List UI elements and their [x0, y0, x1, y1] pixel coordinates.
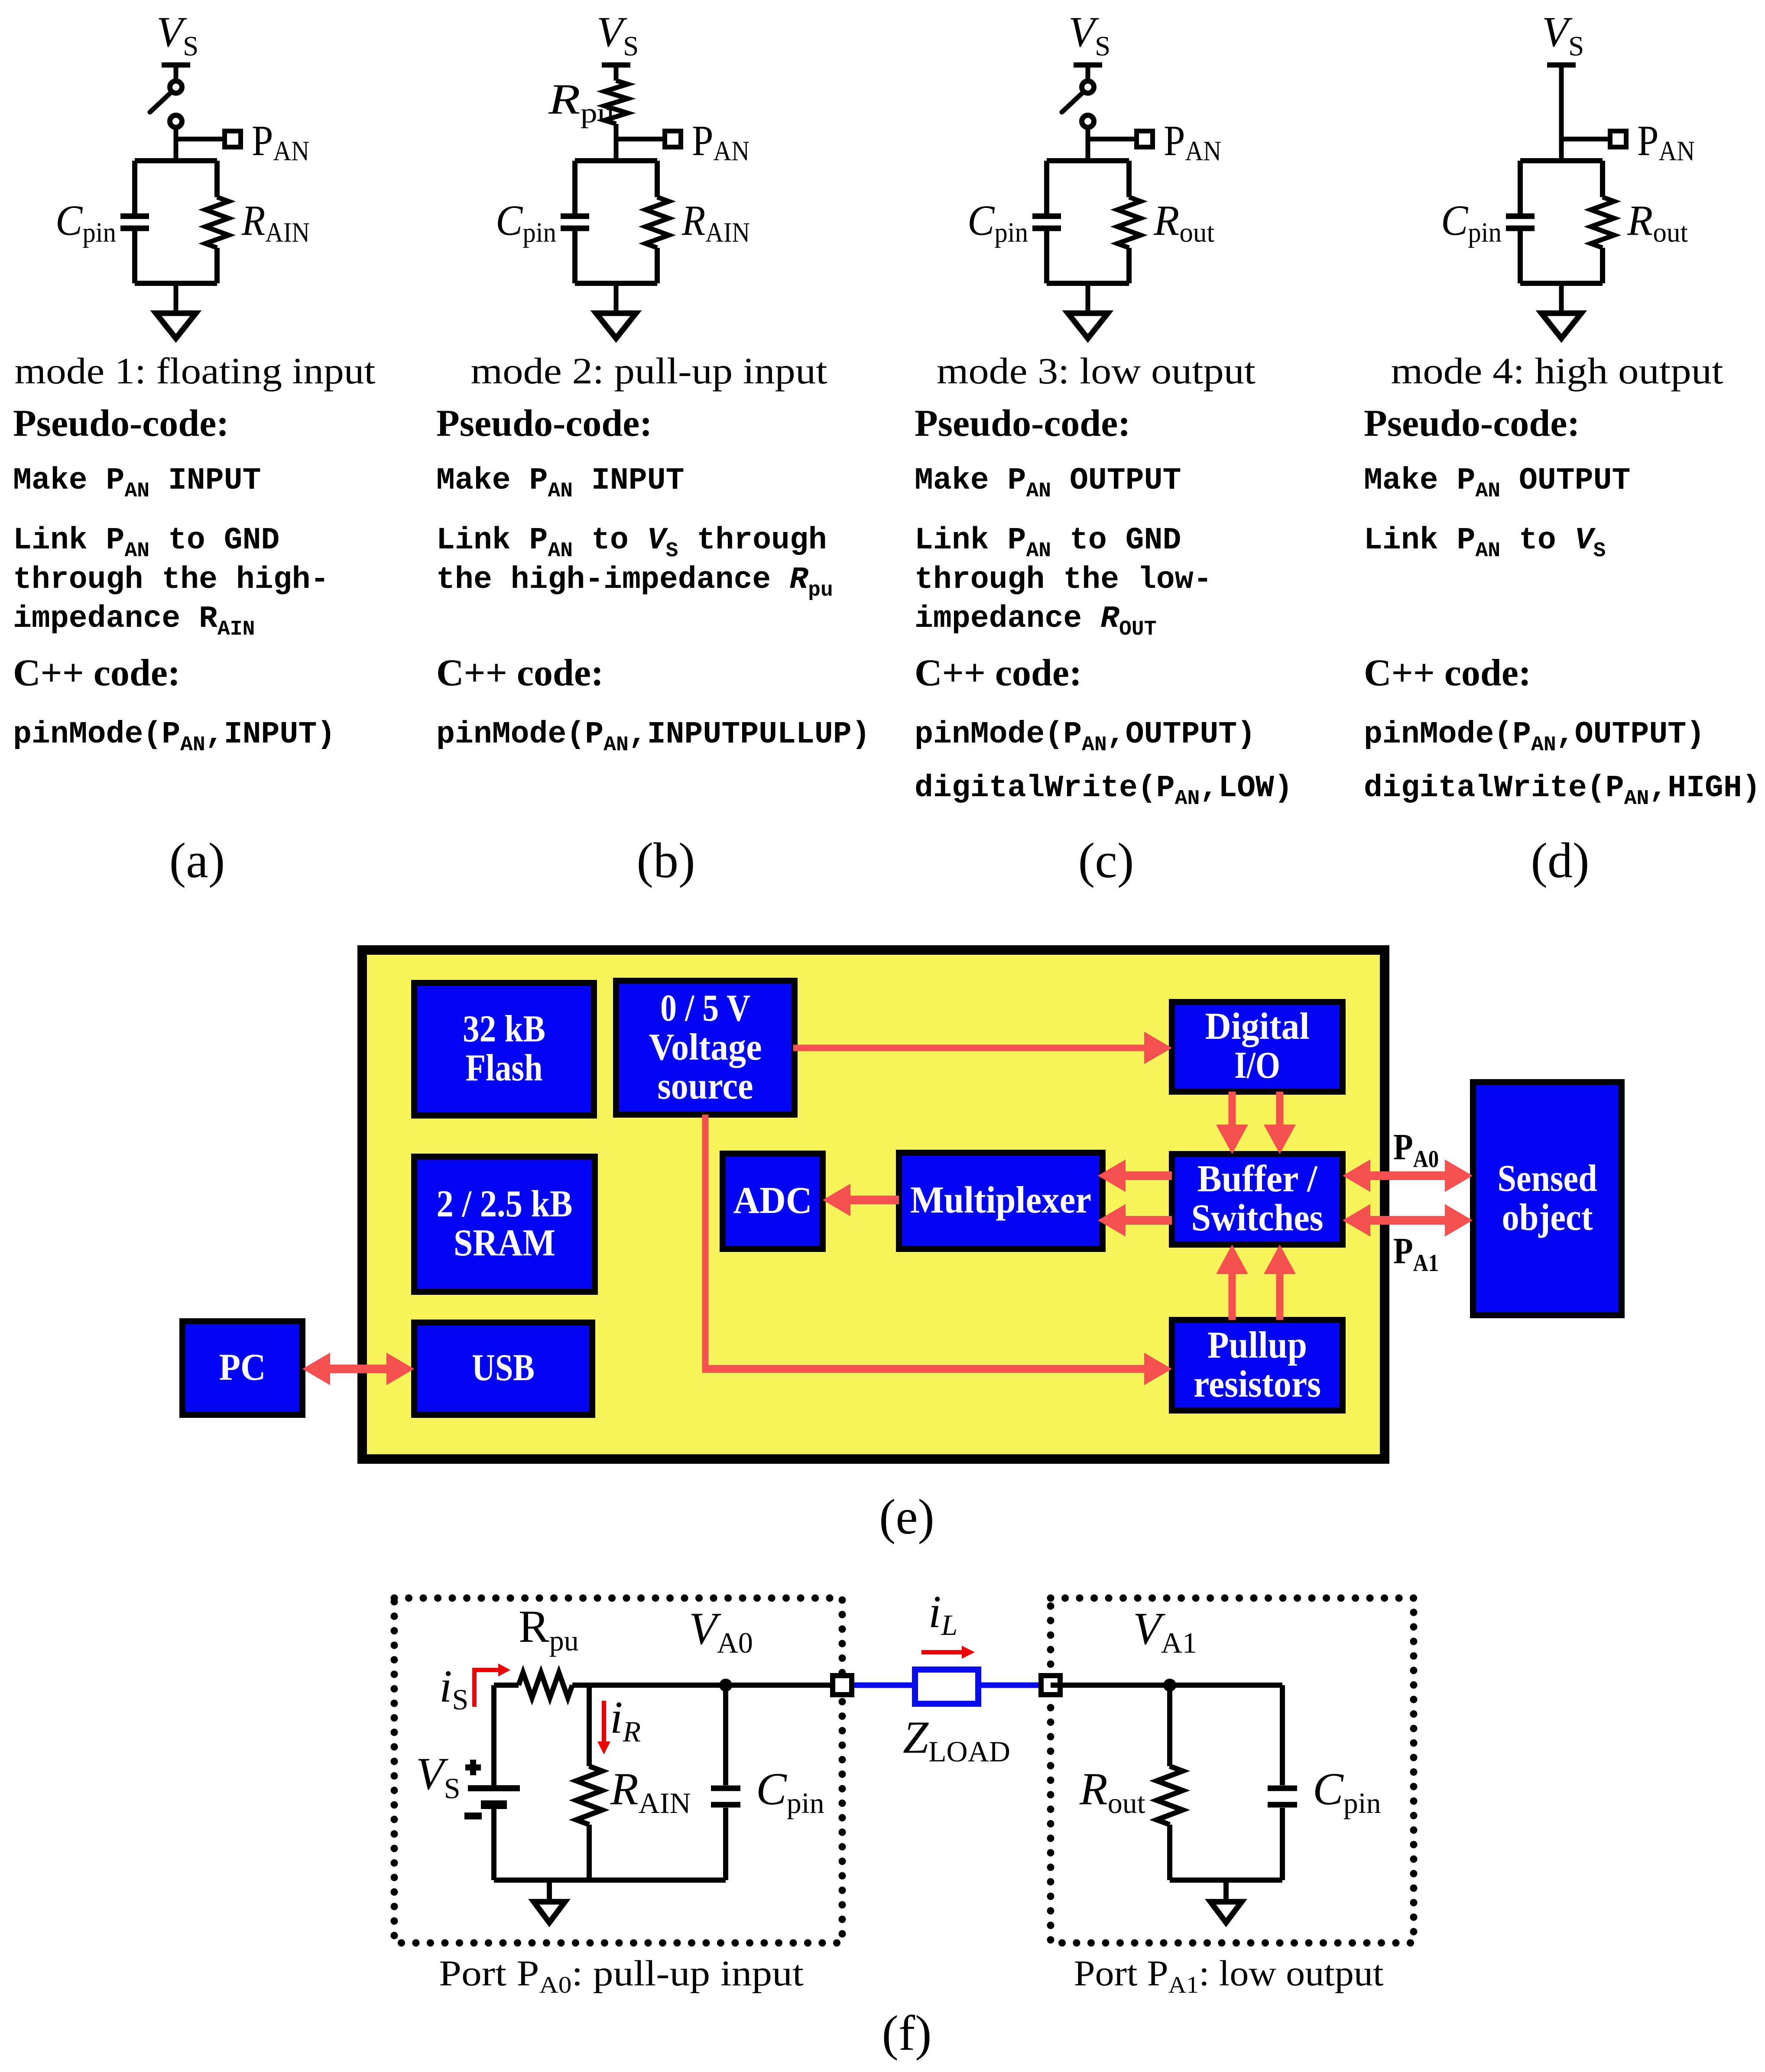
svg-text:Pseudo-code:: Pseudo-code: — [436, 402, 652, 444]
svg-text:2 / 2.5 kB: 2 / 2.5 kB — [437, 1183, 573, 1225]
svg-text:resistors: resistors — [1194, 1363, 1321, 1405]
svg-text:digitalWrite(PAN,LOW): digitalWrite(PAN,LOW) — [915, 771, 1293, 811]
svg-text:Flash: Flash — [466, 1047, 543, 1089]
svg-text:ADC: ADC — [733, 1180, 812, 1222]
svg-text:USB: USB — [472, 1347, 535, 1389]
svg-text:(f): (f) — [882, 2006, 932, 2061]
svg-text:SRAM: SRAM — [454, 1222, 555, 1264]
svg-text:pinMode(PAN,INPUTPULLUP): pinMode(PAN,INPUTPULLUP) — [436, 717, 870, 757]
svg-text:digitalWrite(PAN,HIGH): digitalWrite(PAN,HIGH) — [1364, 771, 1761, 811]
svg-text:mode 2: pull-up input: mode 2: pull-up input — [471, 350, 827, 392]
svg-text:mode 1: floating input: mode 1: floating input — [15, 350, 376, 392]
svg-text:32 kB: 32 kB — [463, 1008, 545, 1050]
svg-text:(c): (c) — [1078, 833, 1134, 888]
svg-text:Sensed: Sensed — [1498, 1158, 1597, 1200]
svg-text:Pseudo-code:: Pseudo-code: — [915, 402, 1131, 444]
svg-text:PC: PC — [219, 1346, 266, 1388]
svg-text:Pseudo-code:: Pseudo-code: — [13, 402, 229, 444]
svg-text:I/O: I/O — [1234, 1044, 1280, 1086]
svg-text:mode 3: low output: mode 3: low output — [937, 350, 1256, 392]
svg-text:(e): (e) — [879, 1489, 934, 1544]
svg-text:Voltage: Voltage — [649, 1026, 762, 1068]
svg-text:(d): (d) — [1531, 833, 1589, 888]
svg-text:mode 4: high output: mode 4: high output — [1391, 350, 1723, 392]
svg-text:C++ code:: C++ code: — [915, 652, 1082, 694]
svg-text:C++ code:: C++ code: — [1364, 652, 1531, 694]
svg-text:object: object — [1502, 1197, 1593, 1239]
svg-text:Buffer /: Buffer / — [1197, 1158, 1318, 1200]
svg-text:Pullup: Pullup — [1207, 1324, 1307, 1366]
svg-text:Pseudo-code:: Pseudo-code: — [1364, 402, 1580, 444]
svg-text:Port PA0: pull-up input: Port PA0: pull-up input — [439, 1953, 804, 1998]
svg-text:pinMode(PAN,INPUT): pinMode(PAN,INPUT) — [13, 717, 335, 757]
svg-text:through the low-: through the low- — [915, 562, 1212, 597]
svg-text:C++ code:: C++ code: — [436, 652, 603, 694]
svg-text:(b): (b) — [636, 833, 695, 888]
svg-text:through the high-: through the high- — [13, 562, 329, 597]
svg-text:(a): (a) — [169, 833, 225, 888]
svg-text:Switches: Switches — [1191, 1197, 1324, 1239]
svg-text:Multiplexer: Multiplexer — [910, 1179, 1091, 1221]
svg-text:C++ code:: C++ code: — [13, 652, 180, 694]
svg-text:0 / 5 V: 0 / 5 V — [660, 987, 750, 1029]
svg-text:Digital: Digital — [1205, 1005, 1310, 1047]
svg-text:the high-impedance Rpu: the high-impedance Rpu — [436, 562, 833, 602]
svg-text:Port PA1: low output: Port PA1: low output — [1074, 1953, 1384, 1998]
svg-text:source: source — [658, 1065, 753, 1107]
svg-text:Link PAN to VS through: Link PAN to VS through — [436, 523, 827, 563]
